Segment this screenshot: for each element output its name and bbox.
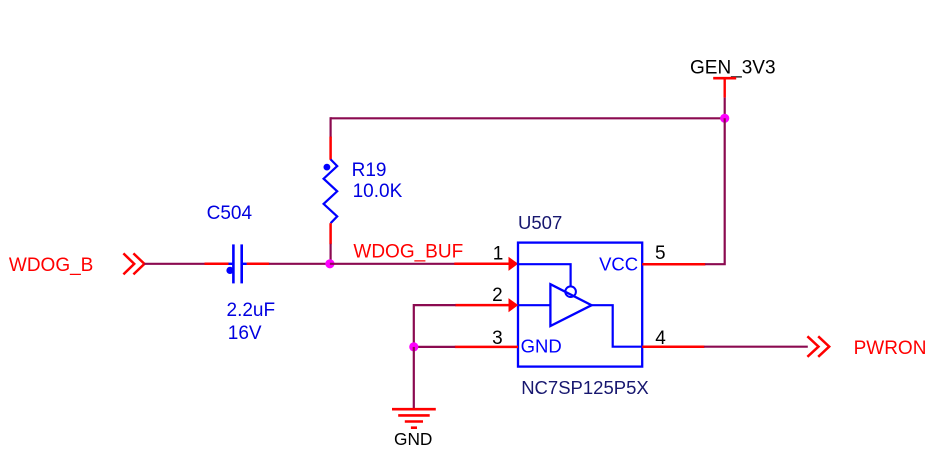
wire capacitor to junction <box>269 263 330 265</box>
svg-text:1: 1 <box>493 244 504 265</box>
resistor R19 pin1 dot <box>324 164 331 171</box>
wire power stem to junction <box>724 98 726 119</box>
wire top horizontal <box>331 117 725 119</box>
svg-text:NC7SP125P5X: NC7SP125P5X <box>521 377 649 398</box>
svg-text:4: 4 <box>655 328 666 349</box>
node junction GND <box>409 342 418 351</box>
svg-text:2: 2 <box>492 285 503 306</box>
svg-text:WDOG_BUF: WDOG_BUF <box>353 242 463 263</box>
pin 2 arrowhead <box>509 298 519 312</box>
svg-text:3: 3 <box>492 328 503 349</box>
power symbol GEN_3V3 bar <box>713 78 736 97</box>
wire junction to ground <box>413 347 415 409</box>
svg-text:GEN_3V3: GEN_3V3 <box>690 58 776 79</box>
pin 1 lead <box>454 263 510 266</box>
svg-text:C504: C504 <box>207 203 253 224</box>
wire junction to pin1 <box>330 263 455 265</box>
pin 2 lead <box>455 304 510 307</box>
port chevron PWRON output <box>807 336 829 357</box>
wire pin5 to junction riser <box>705 118 725 264</box>
svg-text:GND: GND <box>394 429 432 449</box>
resistor R19 body <box>324 159 338 223</box>
wire pin4 to output chevron <box>704 346 808 348</box>
internal wire pin1 to enable bubble <box>518 264 571 286</box>
svg-text:16V: 16V <box>228 323 262 344</box>
svg-text:PWRON: PWRON <box>854 338 927 359</box>
capacitor C504 body <box>229 244 247 283</box>
pin 3 lead <box>455 346 518 349</box>
pin 4 lead <box>642 345 704 348</box>
svg-text:10.0K: 10.0K <box>353 181 403 202</box>
resistor R19 top lead <box>329 137 332 160</box>
wire resistor to junction <box>330 244 332 264</box>
wire pin2 corner <box>414 305 456 347</box>
op-amp U1 chip box U507 <box>518 243 642 367</box>
wire junction to pin3 <box>414 346 455 348</box>
svg-text:2.2uF: 2.2uF <box>227 300 276 321</box>
wire chevron to capacitor <box>144 263 205 265</box>
node junction WDOG_BUF <box>325 259 334 268</box>
capacitor C504 pin1 dot <box>226 267 233 274</box>
svg-text:5: 5 <box>655 243 666 264</box>
svg-text:WDOG_B: WDOG_B <box>9 255 93 276</box>
buffer triangle <box>550 284 591 326</box>
enable bubble <box>565 286 576 297</box>
wire top-left corner down to resistor <box>330 117 332 137</box>
node junction at GEN_3V3 <box>720 114 729 123</box>
resistor R19 bottom lead <box>329 223 332 244</box>
pin 5 lead <box>642 263 705 266</box>
internal wire pin2 to triangle <box>518 304 550 306</box>
capacitor C504 right lead <box>247 263 270 266</box>
svg-text:U507: U507 <box>518 212 562 233</box>
pin 1 arrowhead <box>509 257 519 271</box>
ground symbol <box>392 409 436 428</box>
capacitor C504 left lead <box>205 263 230 266</box>
svg-text:GND: GND <box>521 336 562 357</box>
internal wire triangle output to pin4 <box>592 305 643 347</box>
port chevron WDOG_B input <box>123 253 144 274</box>
svg-text:R19: R19 <box>352 160 387 181</box>
svg-text:VCC: VCC <box>599 253 638 274</box>
